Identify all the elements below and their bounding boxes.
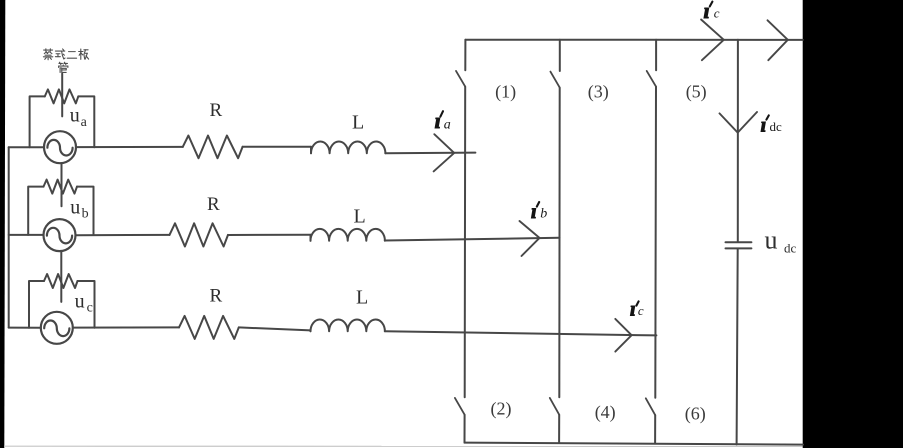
label current ic top bbox=[704, 0, 720, 23]
svg-text:dc: dc bbox=[770, 119, 783, 134]
svg-text:u: u bbox=[70, 197, 80, 219]
svg-text:R: R bbox=[207, 194, 220, 215]
svg-text:c: c bbox=[714, 5, 720, 20]
current arrow ic bbox=[615, 319, 631, 352]
wire L to bridge phase b bbox=[385, 238, 560, 241]
scan border right bbox=[803, 0, 903, 448]
svg-text:dc: dc bbox=[784, 240, 797, 255]
bridge leg switches 5/6 bbox=[655, 40, 657, 71]
switch blade bottom 5/6 bbox=[646, 398, 655, 415]
wire phase b source to R bbox=[76, 234, 170, 236]
wire R to L phase c bbox=[239, 327, 311, 330]
wire neutral bus bbox=[8, 147, 10, 327]
svg-text:u: u bbox=[70, 105, 80, 127]
svg-text:ı: ı bbox=[435, 108, 441, 133]
wire phase c source to R bbox=[73, 326, 179, 328]
svg-text:(4): (4) bbox=[595, 402, 616, 423]
switch blade bottom 1/2 bbox=[455, 398, 465, 415]
AC source ub bbox=[44, 219, 76, 251]
label idc bbox=[761, 115, 782, 137]
svg-text:u: u bbox=[765, 225, 778, 254]
svg-text:a: a bbox=[81, 115, 88, 130]
svg-text:c: c bbox=[638, 303, 644, 318]
resistor (Chua diode) parallel with source ua bbox=[30, 89, 95, 147]
svg-text:ı: ı bbox=[531, 201, 537, 223]
AC source uc bbox=[41, 312, 73, 344]
resistor R phase c bbox=[179, 316, 239, 339]
nonlinear resistor line c bbox=[60, 251, 62, 302]
bridge leg switches 3/4 bbox=[559, 40, 561, 71]
svg-text:(3): (3) bbox=[588, 82, 609, 103]
svg-text:u: u bbox=[75, 291, 85, 313]
wire bridge bottom rail bbox=[465, 443, 804, 445]
wire dc link bottom bbox=[737, 249, 738, 444]
wire R to L phase a bbox=[243, 146, 311, 148]
wire phase c to bus bbox=[9, 327, 41, 329]
inductor L phase b bbox=[311, 229, 385, 241]
svg-text:b: b bbox=[82, 207, 89, 222]
scan page bottom edge bbox=[4, 445, 803, 447]
svg-text:(1): (1) bbox=[495, 82, 516, 103]
label current ib bbox=[531, 201, 547, 223]
wire bridge top rail bbox=[465, 39, 802, 41]
nonlinear resistor line a bbox=[61, 74, 63, 117]
resistor R phase a bbox=[183, 136, 243, 159]
label current ic mid bbox=[630, 298, 644, 320]
wire phase b to bus bbox=[9, 234, 44, 236]
resistor (Chua diode) parallel with source ub bbox=[28, 180, 93, 235]
current arrow ib bbox=[520, 221, 540, 256]
svg-text:L: L bbox=[354, 205, 366, 227]
inductor L phase c bbox=[311, 320, 385, 332]
nonlinear resistor line b bbox=[61, 164, 63, 206]
switch blade bottom 3/4 bbox=[550, 398, 559, 415]
svg-text:(6): (6) bbox=[685, 403, 706, 424]
svg-text:ı: ı bbox=[630, 298, 636, 320]
svg-text:ı: ı bbox=[704, 0, 710, 23]
capacitor udc top plate bbox=[726, 241, 752, 243]
wire R to L phase b bbox=[228, 234, 311, 236]
wire phase a source to R bbox=[76, 146, 183, 148]
wire dc link top bbox=[737, 40, 739, 241]
inductor L phase a bbox=[311, 142, 385, 154]
svg-text:(5): (5) bbox=[686, 82, 707, 103]
svg-text:b: b bbox=[540, 206, 547, 221]
svg-text:(2): (2) bbox=[491, 398, 512, 419]
switch blade top 5/6 bbox=[647, 71, 656, 87]
svg-text:L: L bbox=[352, 111, 364, 133]
svg-text:R: R bbox=[210, 100, 223, 121]
wire phase a to bus bbox=[9, 146, 44, 148]
resistor R phase b bbox=[170, 223, 229, 246]
scan border left bbox=[0, 0, 5, 448]
current arrow ic out right bbox=[768, 20, 788, 60]
current arrow ia bbox=[434, 134, 455, 171]
bridge leg switches 1/2 bbox=[464, 40, 466, 70]
switch blade top 3/4 bbox=[550, 72, 559, 88]
AC source ua bbox=[44, 131, 76, 163]
label current ia bbox=[435, 108, 451, 133]
svg-text:a: a bbox=[444, 118, 451, 133]
svg-text:R: R bbox=[210, 286, 223, 307]
resistor (Chua diode) parallel with source uc bbox=[29, 274, 95, 328]
wire L to bridge phase c bbox=[385, 331, 657, 335]
switch blade top 1/2 bbox=[456, 71, 465, 87]
annotation text 蔡式二极管 (Chua diode) hand-drawn bbox=[43, 49, 88, 73]
wire L to bridge phase a bbox=[385, 152, 475, 155]
svg-text:c: c bbox=[87, 301, 93, 316]
capacitor udc bottom plate bbox=[726, 247, 752, 249]
svg-text:L: L bbox=[356, 287, 368, 309]
svg-text:ı: ı bbox=[761, 115, 767, 137]
current arrow ic out left bbox=[701, 20, 724, 61]
current arrow idc bbox=[720, 112, 758, 133]
